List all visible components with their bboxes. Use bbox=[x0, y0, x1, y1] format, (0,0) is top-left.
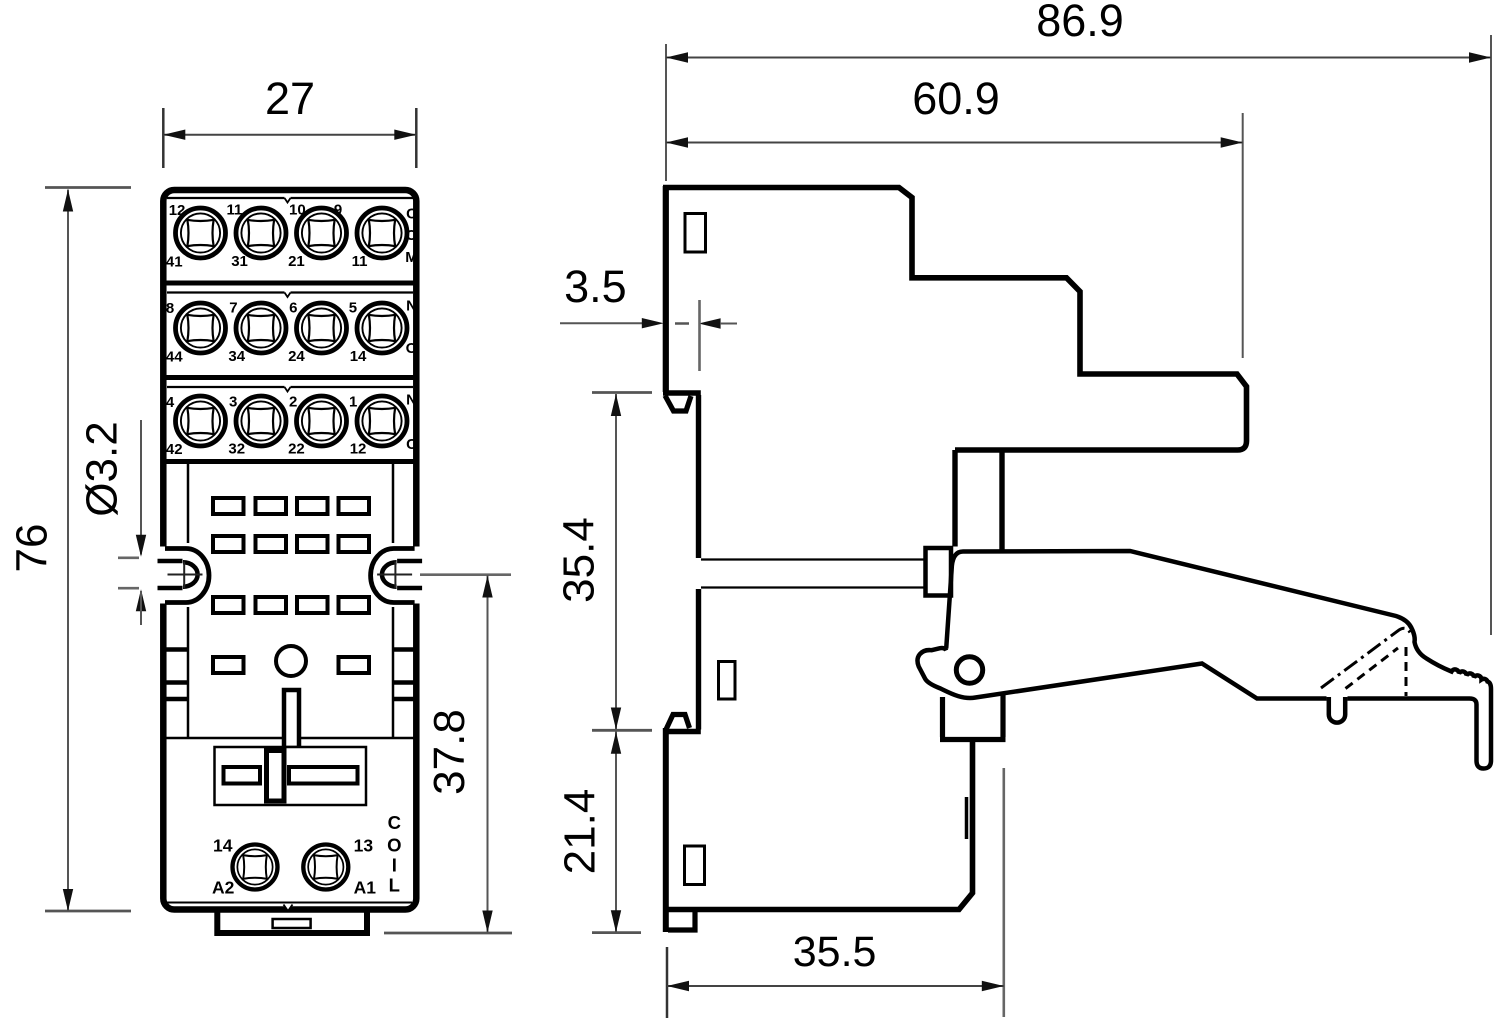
clip released vertical dashed bbox=[1405, 647, 1408, 696]
latch frame bbox=[215, 747, 367, 805]
left DIN-pin notch bbox=[156, 547, 210, 604]
screw terminal 12/41 bbox=[176, 208, 226, 258]
thin line under top border bbox=[167, 197, 413, 199]
bottom notch V mark bbox=[284, 904, 293, 912]
socket body outline bbox=[163, 190, 416, 910]
svg-text:N: N bbox=[406, 298, 417, 315]
thin line above bottom border bbox=[167, 902, 413, 904]
thin line row3 bbox=[167, 386, 413, 388]
svg-text:4: 4 bbox=[166, 394, 175, 411]
dim 27 bbox=[163, 73, 416, 168]
screw terminal 7/34 bbox=[236, 303, 286, 353]
left edge upper bbox=[663, 186, 669, 392]
svg-text:M: M bbox=[405, 249, 418, 266]
svg-text:9: 9 bbox=[334, 202, 342, 219]
svg-text:32: 32 bbox=[228, 441, 245, 458]
step verticals above retaining clip bbox=[952, 450, 957, 547]
row separator 3 bbox=[166, 459, 414, 464]
svg-text:3.5: 3.5 bbox=[564, 261, 627, 312]
svg-text:12: 12 bbox=[350, 441, 367, 458]
thin line row2 bbox=[167, 291, 413, 293]
svg-text:A1: A1 bbox=[354, 878, 377, 898]
svg-text:N: N bbox=[406, 392, 417, 409]
svg-text:13: 13 bbox=[354, 836, 374, 856]
svg-text:24: 24 bbox=[288, 348, 305, 365]
svg-text:O: O bbox=[387, 835, 401, 856]
screw terminal 5/14 NO bbox=[357, 303, 407, 353]
svg-text:C: C bbox=[388, 812, 401, 833]
lever bottom edge and left jaw bbox=[917, 648, 1326, 698]
svg-text:L: L bbox=[389, 875, 400, 896]
latch left window bbox=[224, 767, 261, 784]
clip anchor block bbox=[926, 548, 952, 596]
svg-text:6: 6 bbox=[289, 300, 297, 317]
svg-text:11: 11 bbox=[227, 202, 243, 219]
svg-text:I: I bbox=[392, 855, 397, 876]
svg-text:31: 31 bbox=[231, 253, 248, 270]
window middle bbox=[719, 662, 736, 700]
left edge lower bbox=[663, 728, 669, 932]
side strip ticks left bbox=[167, 647, 189, 652]
dim 3.5 bbox=[560, 261, 737, 371]
svg-text:14: 14 bbox=[213, 836, 233, 856]
section boundary line bbox=[166, 737, 416, 740]
clip released position dashed bbox=[1346, 648, 1399, 689]
svg-text:37.8: 37.8 bbox=[425, 709, 474, 795]
window upper bbox=[685, 214, 706, 253]
screw terminal 4/42 bbox=[176, 396, 226, 446]
row separator 1 bbox=[166, 281, 414, 286]
svg-text:2: 2 bbox=[289, 394, 297, 411]
lever U-notch bbox=[1329, 697, 1345, 723]
contact slots row A bbox=[213, 498, 369, 514]
coil terminal labels bbox=[212, 836, 376, 898]
coil screw A2 bbox=[233, 845, 278, 890]
screw terminal 9/11 COM bbox=[357, 208, 407, 258]
svg-text:8: 8 bbox=[166, 300, 174, 317]
svg-text:C: C bbox=[406, 206, 417, 223]
svg-text:5: 5 bbox=[349, 300, 357, 317]
row separator 2 bbox=[166, 375, 414, 380]
svg-text:21.4: 21.4 bbox=[556, 789, 605, 875]
latch handle bbox=[267, 751, 285, 802]
lever foot bbox=[940, 695, 1006, 740]
terminal mark on right edge bbox=[965, 797, 969, 839]
svg-text:86.9: 86.9 bbox=[1036, 0, 1124, 46]
dim 35.4 bbox=[555, 393, 653, 731]
top edge and staircase profile bbox=[663, 188, 1247, 451]
bottom edge and right edge of lower body bbox=[668, 740, 973, 910]
central vertical slot bbox=[284, 690, 299, 748]
screw terminal 6/24 bbox=[297, 303, 347, 353]
svg-text:60.9: 60.9 bbox=[912, 73, 1000, 124]
screw terminal 3/32 bbox=[236, 396, 286, 446]
svg-text:35.4: 35.4 bbox=[555, 517, 604, 603]
dim 21.4 bbox=[556, 732, 642, 933]
dim 86.9 bbox=[666, 0, 1491, 635]
screw terminal 2/22 bbox=[297, 396, 347, 446]
left wall middle bbox=[696, 395, 701, 730]
svg-text:34: 34 bbox=[228, 348, 245, 365]
upper DIN rail hook bbox=[663, 390, 701, 395]
svg-text:27: 27 bbox=[265, 73, 315, 124]
dim 35.5 bbox=[667, 768, 1004, 1018]
dim 60.9 bbox=[666, 73, 1243, 358]
latch right window bbox=[289, 767, 358, 784]
dim 76 bbox=[8, 188, 132, 912]
contact slots row C bbox=[213, 597, 369, 613]
svg-text:42: 42 bbox=[166, 441, 183, 458]
svg-text:12: 12 bbox=[169, 202, 186, 219]
lower DIN rail hook bbox=[663, 729, 701, 734]
svg-text:41: 41 bbox=[166, 254, 183, 271]
screw terminal 10/21 bbox=[297, 208, 347, 258]
bottom tab bbox=[217, 909, 367, 933]
svg-text:22: 22 bbox=[288, 441, 305, 458]
bottom tab window bbox=[273, 919, 311, 928]
inner side walls bbox=[187, 462, 190, 739]
svg-text:44: 44 bbox=[166, 349, 183, 366]
center hole bbox=[276, 646, 306, 676]
svg-text:7: 7 bbox=[229, 300, 237, 317]
svg-text:C: C bbox=[406, 436, 417, 453]
bottom-left foot bbox=[668, 910, 695, 931]
dim dia 3.2 bbox=[78, 420, 147, 625]
contact slots row D bbox=[213, 657, 369, 673]
svg-text:14: 14 bbox=[350, 348, 367, 365]
terminal labels row 2 bbox=[166, 298, 418, 366]
coil screw A1 bbox=[303, 845, 348, 890]
svg-text:O: O bbox=[406, 340, 418, 357]
svg-text:35.5: 35.5 bbox=[793, 928, 877, 976]
screw terminal 11/31 bbox=[236, 208, 286, 258]
terminal labels row 1 bbox=[166, 202, 418, 271]
screw terminal 8/44 bbox=[176, 303, 226, 353]
pivot pin bbox=[956, 657, 982, 683]
retaining clip lever outline bbox=[946, 551, 1491, 769]
COIL label bbox=[387, 812, 401, 896]
svg-text:Ø3.2: Ø3.2 bbox=[78, 421, 127, 516]
svg-text:11: 11 bbox=[352, 253, 368, 270]
right DIN-pin notch bbox=[371, 547, 424, 604]
svg-text:O: O bbox=[406, 227, 418, 244]
svg-text:76: 76 bbox=[8, 524, 57, 573]
side strip ticks right bbox=[393, 647, 416, 652]
svg-text:A2: A2 bbox=[212, 878, 235, 898]
contact slots row B bbox=[213, 536, 369, 552]
dim 37.8 bbox=[384, 575, 512, 933]
svg-text:3: 3 bbox=[229, 394, 237, 411]
window lower bbox=[685, 846, 705, 885]
clip released position dash-dot bbox=[1321, 628, 1410, 688]
svg-text:10: 10 bbox=[289, 202, 306, 219]
svg-text:1: 1 bbox=[349, 394, 357, 411]
screw terminal 1/12 NC bbox=[357, 396, 407, 446]
relay clip slot (side) bbox=[701, 560, 924, 588]
terminal labels row 3 bbox=[166, 392, 417, 459]
svg-text:21: 21 bbox=[288, 253, 305, 270]
